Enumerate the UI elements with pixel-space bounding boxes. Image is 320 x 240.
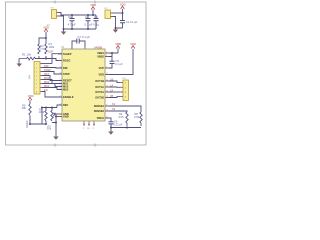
svg-text:VBB2: VBB2 bbox=[97, 54, 104, 58]
svg-text:13: 13 bbox=[106, 109, 108, 111]
svg-text:OUT2B: OUT2B bbox=[95, 95, 104, 99]
resistor R6 bbox=[39, 108, 48, 125]
svg-text:MS1: MS1 bbox=[44, 76, 50, 80]
svg-text:STEP: STEP bbox=[63, 72, 70, 76]
wire VREF rail bbox=[30, 105, 62, 124]
svg-text:0.05: 0.05 bbox=[119, 115, 125, 119]
pins right stubs bbox=[105, 53, 109, 118]
svg-text:21: 21 bbox=[106, 79, 108, 81]
wire JP2 pin2 to gnd bbox=[113, 17, 123, 30]
svg-text:STEP: STEP bbox=[44, 68, 51, 72]
svg-text:R1 10k: R1 10k bbox=[22, 52, 32, 56]
resistor R1 bbox=[19, 52, 35, 63]
svg-text:0.1 µF: 0.1 µF bbox=[115, 62, 123, 66]
connector JP3 bbox=[121, 78, 129, 100]
capacitor C1 bbox=[68, 14, 76, 30]
svg-text:C4 0.1 µF: C4 0.1 µF bbox=[126, 20, 138, 24]
wires OUT to JP3 bbox=[109, 81, 121, 98]
svg-text:28: 28 bbox=[106, 96, 108, 98]
svg-text:1: 1 bbox=[60, 59, 61, 61]
svg-text:JP4: JP4 bbox=[28, 74, 32, 79]
svg-text:2: 2 bbox=[60, 52, 61, 54]
net labels bbox=[44, 64, 51, 92]
svg-text:0.1 µF: 0.1 µF bbox=[85, 23, 93, 27]
trimmer R7 bbox=[47, 107, 56, 131]
svg-text:RST: RST bbox=[44, 72, 50, 76]
wire VREG bbox=[109, 118, 111, 120]
svg-text:0.22 µF: 0.22 µF bbox=[114, 123, 123, 127]
wire sense rail bbox=[111, 128, 141, 132]
supply VBB top bbox=[90, 3, 96, 16]
capacitor C5 bbox=[105, 53, 123, 68]
svg-text:VBB1: VBB1 bbox=[97, 51, 104, 55]
svg-text:S2: S2 bbox=[112, 107, 116, 111]
ground bbox=[108, 132, 114, 135]
svg-text:0.05: 0.05 bbox=[134, 115, 140, 119]
capacitor C7 flying bbox=[72, 35, 90, 49]
svg-text:OUT1B: OUT1B bbox=[95, 79, 104, 83]
svg-text:20k: 20k bbox=[22, 106, 27, 110]
pins bottom pads bbox=[83, 121, 94, 125]
svg-text:12: 12 bbox=[106, 116, 108, 118]
svg-text:VDD: VDD bbox=[99, 72, 105, 76]
wire S2 bbox=[109, 111, 127, 112]
wire VBB1 VBB2 bbox=[105, 53, 118, 57]
svg-text:10k: 10k bbox=[47, 127, 52, 131]
wire bottom rail bbox=[64, 28, 97, 30]
resistor R8 bbox=[134, 112, 142, 126]
svg-text:4: 4 bbox=[106, 51, 107, 53]
net labels out bbox=[110, 78, 113, 99]
wire R1 to ROSC bbox=[35, 59, 58, 61]
svg-text:17: 17 bbox=[60, 103, 62, 105]
svg-text:S1: S1 bbox=[112, 102, 116, 106]
wire VBB rail top bbox=[59, 13, 96, 30]
svg-text:C7 0.1 µF: C7 0.1 µF bbox=[78, 35, 91, 39]
svg-text:VREG: VREG bbox=[97, 116, 104, 120]
svg-text:19: 19 bbox=[60, 66, 62, 68]
capacitor C4 bbox=[120, 13, 138, 28]
svg-text:5: 5 bbox=[71, 47, 72, 49]
svg-text:MS3: MS3 bbox=[63, 87, 69, 91]
supply VDD mid bbox=[130, 42, 136, 49]
pins left stubs bbox=[56, 54, 62, 117]
svg-text:17: 17 bbox=[60, 79, 62, 81]
capacitor C3 bbox=[93, 15, 99, 29]
pin labels left bbox=[63, 52, 74, 119]
svg-text:OUT1A: OUT1A bbox=[95, 85, 104, 89]
resistor R2 bbox=[38, 38, 46, 59]
pin numbers bbox=[60, 47, 108, 118]
svg-text:R2: R2 bbox=[40, 44, 44, 48]
svg-text:ROSC: ROSC bbox=[63, 58, 71, 62]
svg-text:REF: REF bbox=[63, 103, 69, 107]
svg-text:0.1µ: 0.1µ bbox=[94, 23, 100, 27]
svg-text:6: 6 bbox=[106, 55, 107, 57]
svg-text:2A: 2A bbox=[110, 89, 113, 93]
ground bbox=[53, 137, 59, 140]
supply VDD top-right bbox=[120, 2, 126, 13]
wire VDD to pin bbox=[105, 49, 133, 75]
svg-text:18: 18 bbox=[87, 128, 89, 130]
svg-text:OUT2A: OUT2A bbox=[95, 90, 104, 94]
IC U1 A4988 bbox=[61, 45, 105, 121]
svg-text:VCP: VCP bbox=[99, 66, 105, 70]
svg-text:MS2: MS2 bbox=[44, 80, 50, 84]
resistor R3 bbox=[45, 38, 55, 59]
svg-text:MS3: MS3 bbox=[44, 84, 50, 88]
svg-text:8: 8 bbox=[106, 104, 107, 106]
svg-text:15: 15 bbox=[106, 73, 108, 75]
schematic frame bbox=[6, 1, 147, 147]
svg-text:100k: 100k bbox=[49, 45, 55, 49]
connector JP2 bbox=[104, 8, 113, 19]
svg-text:U1: U1 bbox=[61, 45, 65, 49]
svg-text:3: 3 bbox=[106, 66, 107, 68]
svg-text:EN: EN bbox=[44, 88, 48, 92]
wire SLEEP bbox=[52, 54, 62, 64]
svg-text:3: 3 bbox=[83, 128, 84, 130]
svg-text:C3: C3 bbox=[94, 15, 98, 19]
svg-text:DIR: DIR bbox=[44, 64, 49, 68]
pin labels right bbox=[94, 51, 105, 120]
svg-text:2B: 2B bbox=[110, 94, 113, 98]
svg-text:GND: GND bbox=[63, 114, 69, 118]
svg-text:10: 10 bbox=[60, 85, 62, 87]
connector JP1 bbox=[47, 8, 60, 28]
wire S1 bbox=[109, 106, 141, 112]
wire JP2 to VDD bbox=[113, 12, 123, 14]
svg-text:DIR: DIR bbox=[63, 66, 68, 70]
svg-text:26: 26 bbox=[106, 90, 108, 92]
capacitor C6 bbox=[109, 120, 123, 128]
svg-text:11: 11 bbox=[60, 88, 62, 90]
svg-text:VDD: VDD bbox=[28, 94, 34, 98]
svg-text:7: 7 bbox=[85, 47, 86, 49]
svg-text:VREF: VREF bbox=[25, 120, 29, 128]
svg-text:9: 9 bbox=[60, 82, 61, 84]
connector JP4 bbox=[28, 62, 43, 95]
svg-text:100k: 100k bbox=[39, 110, 45, 114]
svg-text:4.7 µF: 4.7 µF bbox=[68, 23, 76, 27]
wire GND pins bbox=[52, 114, 56, 137]
ground bbox=[17, 64, 23, 67]
svg-text:7: 7 bbox=[60, 95, 61, 97]
svg-text:SENSE1: SENSE1 bbox=[94, 104, 105, 108]
svg-text:SLEEP: SLEEP bbox=[63, 52, 72, 56]
ground bbox=[113, 30, 119, 33]
supply VDD left bbox=[43, 26, 49, 39]
svg-text:A4988: A4988 bbox=[94, 45, 103, 49]
svg-text:ENABLE: ENABLE bbox=[63, 95, 74, 99]
capacitor C2 bbox=[85, 14, 93, 30]
resistor R5 bbox=[22, 103, 31, 124]
svg-text:23: 23 bbox=[106, 85, 108, 87]
svg-text:SLP: SLP bbox=[48, 50, 53, 54]
svg-text:SENSE2: SENSE2 bbox=[94, 109, 105, 113]
ground bbox=[61, 32, 67, 35]
wires JP4 to IC bbox=[42, 64, 63, 98]
svg-text:16: 16 bbox=[60, 72, 62, 74]
svg-text:1A: 1A bbox=[110, 84, 113, 88]
svg-text:1B: 1B bbox=[110, 78, 113, 82]
supply VBB mid bbox=[115, 42, 121, 53]
supply VDD bottom-left bbox=[28, 94, 34, 104]
resistor R4 bbox=[119, 112, 129, 126]
